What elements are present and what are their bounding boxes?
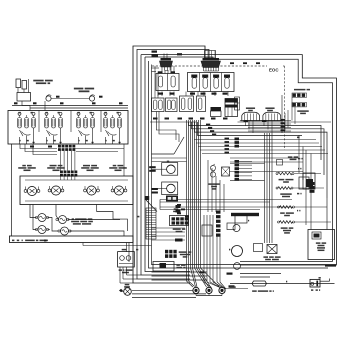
svg-text:EOC: EOC bbox=[269, 68, 279, 73]
